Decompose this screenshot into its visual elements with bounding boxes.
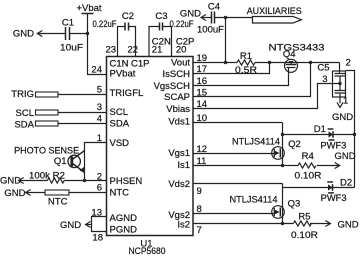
node C4 junction: [224, 16, 227, 19]
svg-text:GND: GND: [335, 151, 356, 162]
wire SCL to pin 3: [58, 112, 107, 114]
svg-text:PWF3: PWF3: [321, 193, 347, 204]
ground GND at C1: [13, 29, 42, 40]
svg-text:7: 7: [197, 225, 202, 236]
svg-text:IsSCH: IsSCH: [163, 69, 191, 80]
wire C1 to +Vbat rail: [70, 33, 88, 35]
svg-text:GND: GND: [4, 188, 25, 199]
wire D1 anode line: [283, 134, 355, 136]
svg-text:C2P: C2P: [176, 37, 194, 48]
node AUXILIARIES banner: [247, 6, 302, 23]
wire pin 13 AGND and pin 18 PGND tie: [92, 217, 107, 232]
svg-text:24: 24: [91, 65, 102, 76]
port TRIG: [11, 89, 58, 100]
node at +Vbat rail: [86, 32, 89, 35]
resistor R4 0.10R: [295, 151, 322, 181]
resistor R1 0.5R: [235, 51, 257, 76]
wire tie to GND arrow: [86, 224, 92, 226]
resistor R5 0.10R: [291, 211, 318, 241]
svg-text:9: 9: [197, 186, 202, 197]
pin numbers right side: [197, 53, 208, 236]
svg-text:C2N: C2N: [152, 37, 171, 48]
capacitor C1 10uF: [60, 17, 83, 53]
svg-text:SCL: SCL: [110, 107, 128, 118]
ground GND at R2: [0, 176, 24, 187]
svg-text:0.22uF: 0.22uF: [93, 19, 117, 30]
svg-text:VgsSCH: VgsSCH: [154, 81, 191, 92]
wire SDA to pin 4: [58, 123, 107, 125]
svg-text:GND: GND: [60, 220, 81, 231]
svg-text:3: 3: [97, 102, 102, 113]
svg-text:NCP5680: NCP5680: [129, 246, 166, 256]
svg-text:Vds1: Vds1: [168, 116, 190, 127]
wire C5 top to flash rail down: [346, 71, 355, 188]
svg-text:NTLJS4114: NTLJS4114: [230, 195, 278, 206]
capacitor C5 supercap module: [317, 57, 350, 106]
svg-text:GND: GND: [180, 8, 201, 19]
port SCL: [16, 108, 58, 119]
ground GND at R4: [335, 151, 356, 168]
svg-text:R4: R4: [302, 151, 314, 162]
wire pin 9 Vds2: [193, 183, 283, 185]
wire Q2 drain column: [282, 123, 284, 166]
thermistor NTC: [45, 190, 69, 207]
transistor Q1 photo sense: [14, 146, 85, 173]
svg-text:NTC: NTC: [48, 196, 68, 207]
wire GND to C4: [201, 17, 212, 19]
ground GND at NTC: [4, 188, 30, 199]
svg-text:SDA: SDA: [14, 119, 34, 130]
svg-text:SCAP: SCAP: [164, 92, 190, 103]
diode D2 PWF3 flash LED: [321, 178, 353, 205]
svg-text:0.5R: 0.5R: [235, 65, 257, 76]
node Q2 source junction: [281, 164, 284, 167]
svg-text:Q1: Q1: [54, 156, 67, 167]
svg-text:PHSEN: PHSEN: [110, 176, 143, 187]
wire C4 to auxiliaries line: [215, 17, 253, 19]
svg-text:GND: GND: [338, 220, 359, 231]
svg-text:Is2: Is2: [177, 219, 190, 230]
node Q1 emitter to PHSEN junction: [83, 179, 86, 182]
svg-text:SDA: SDA: [110, 119, 130, 130]
port SDA: [14, 119, 58, 130]
svg-text:6: 6: [97, 183, 102, 194]
node flash rail at D1: [353, 133, 356, 136]
wire pin 10 Vds1: [193, 122, 283, 124]
wire Q3 drain column: [282, 184, 284, 224]
node D1 line junction: [281, 133, 284, 136]
svg-text:2: 2: [346, 57, 351, 68]
svg-text:NTGS3433: NTGS3433: [269, 43, 325, 54]
svg-text:PGND: PGND: [110, 224, 138, 235]
svg-text:VSD: VSD: [110, 138, 130, 149]
pin labels inside U1 right: [154, 58, 191, 231]
svg-text:PWF3: PWF3: [320, 141, 346, 152]
svg-text:Vout: Vout: [171, 58, 190, 69]
wire GND to R2: [19, 180, 48, 182]
wire pin 8 Vgs2 gate: [193, 213, 274, 215]
pin labels inside U1 left: [110, 58, 150, 235]
svg-text:Q3: Q3: [288, 199, 301, 210]
wire D2 anode line: [283, 187, 355, 189]
op-amp U1 NCP5680 IC body: [107, 57, 194, 257]
svg-text:C3: C3: [155, 11, 167, 22]
svg-text:D2: D2: [340, 178, 352, 189]
svg-text:C1: C1: [62, 17, 74, 28]
pin numbers top side: [106, 37, 195, 56]
svg-text:PHOTO SENSE: PHOTO SENSE: [14, 146, 79, 157]
node main rail at C4 riser: [224, 61, 227, 64]
wire R2 to pin 2 PHSEN: [64, 180, 106, 182]
wire R4 to ground: [317, 165, 340, 167]
wire pin 19 Vout main rail: [193, 62, 237, 64]
svg-text:0.22uF: 0.22uF: [170, 19, 194, 30]
capacitor C2 0.22uF across pins 23,22: [93, 11, 136, 57]
svg-text:Vbias: Vbias: [166, 104, 190, 115]
svg-text:GND: GND: [13, 29, 34, 40]
wire R5 to ground: [310, 223, 330, 225]
svg-text:NTC: NTC: [110, 187, 130, 198]
wire pin 7 Is2: [193, 223, 293, 225]
wire +Vbat to pin 24 PVbat: [88, 14, 107, 75]
svg-text:+Vbat: +Vbat: [76, 3, 101, 14]
wire R1 to C5: [255, 62, 340, 64]
svg-text:Q2: Q2: [288, 139, 301, 150]
wire pin 14 Vbias to C5 tap 3: [193, 84, 340, 109]
resistor R2 100k: [29, 170, 65, 183]
wire pin 1 VSD to Q1 collector: [85, 143, 107, 181]
svg-text:23: 23: [106, 44, 117, 55]
wire junction down to Vout line: [225, 18, 227, 63]
pin numbers left side: [91, 65, 103, 244]
power +Vbat: [76, 3, 101, 14]
svg-text:C2: C2: [122, 11, 134, 22]
capacitor C4 100uF: [197, 2, 224, 36]
svg-text:1: 1: [343, 96, 348, 107]
node Q3 source junction: [281, 222, 284, 225]
svg-text:100uF: 100uF: [197, 24, 224, 35]
svg-text:0.10R: 0.10R: [291, 230, 318, 241]
ground GND at R5: [325, 220, 358, 231]
wire GND to C1: [37, 33, 65, 35]
svg-text:PVbat: PVbat: [110, 69, 136, 80]
svg-text:GND: GND: [332, 112, 353, 123]
svg-text:0.10R: 0.10R: [295, 170, 322, 181]
svg-text:18: 18: [92, 232, 103, 243]
svg-text:C5: C5: [317, 62, 329, 73]
diode D1 PWF3 flash LED: [314, 124, 347, 152]
svg-text:AGND: AGND: [110, 213, 138, 224]
node R1 right sense junction: [268, 61, 271, 64]
capacitor C3 0.22uF across pins 21,20: [149, 11, 194, 57]
svg-text:Is1: Is1: [177, 160, 190, 171]
svg-text:D1: D1: [314, 124, 326, 135]
svg-text:GND: GND: [0, 176, 21, 187]
ground GND at AGND PGND: [60, 220, 91, 231]
wire NTC to pin 6: [69, 192, 107, 194]
svg-text:10uF: 10uF: [60, 42, 83, 53]
svg-text:Q4: Q4: [283, 49, 296, 60]
svg-text:C4: C4: [208, 2, 220, 13]
wire TRIG to pin 5 TRIGFL: [58, 94, 107, 96]
svg-text:Vds2: Vds2: [168, 179, 190, 190]
svg-text:TRIG: TRIG: [11, 89, 34, 100]
wire pin 11 Is1: [193, 165, 298, 167]
node SCAP junction on rail: [309, 61, 312, 64]
svg-text:AUXILIARIES: AUXILIARIES: [247, 6, 302, 17]
svg-text:R1: R1: [240, 51, 252, 62]
transistor Q2 NTLJS4114: [232, 137, 301, 160]
ground GND at C4: [180, 8, 206, 20]
svg-text:Vgs1: Vgs1: [168, 148, 190, 159]
svg-text:SCL: SCL: [16, 108, 34, 119]
svg-text:R5: R5: [298, 211, 310, 222]
wire Q4 gate to pin 16 VgsSCH: [193, 68, 289, 86]
wire pin 12 Vgs1 gate: [193, 153, 274, 155]
wire pin 15 SCAP to rail: [193, 63, 311, 97]
svg-text:TRIGFL: TRIGFL: [110, 88, 144, 99]
wire pin 17 IsSCH sense: [193, 63, 270, 74]
svg-text:4: 4: [97, 113, 102, 124]
svg-text:NTLJS4114: NTLJS4114: [232, 137, 280, 148]
transistor Q4 NTGS3433: [269, 43, 325, 73]
ground GND below C5: [332, 102, 353, 122]
transistor Q3 NTLJS4114: [230, 195, 301, 219]
svg-text:22: 22: [128, 44, 139, 55]
wire GND to NTC: [26, 192, 45, 194]
